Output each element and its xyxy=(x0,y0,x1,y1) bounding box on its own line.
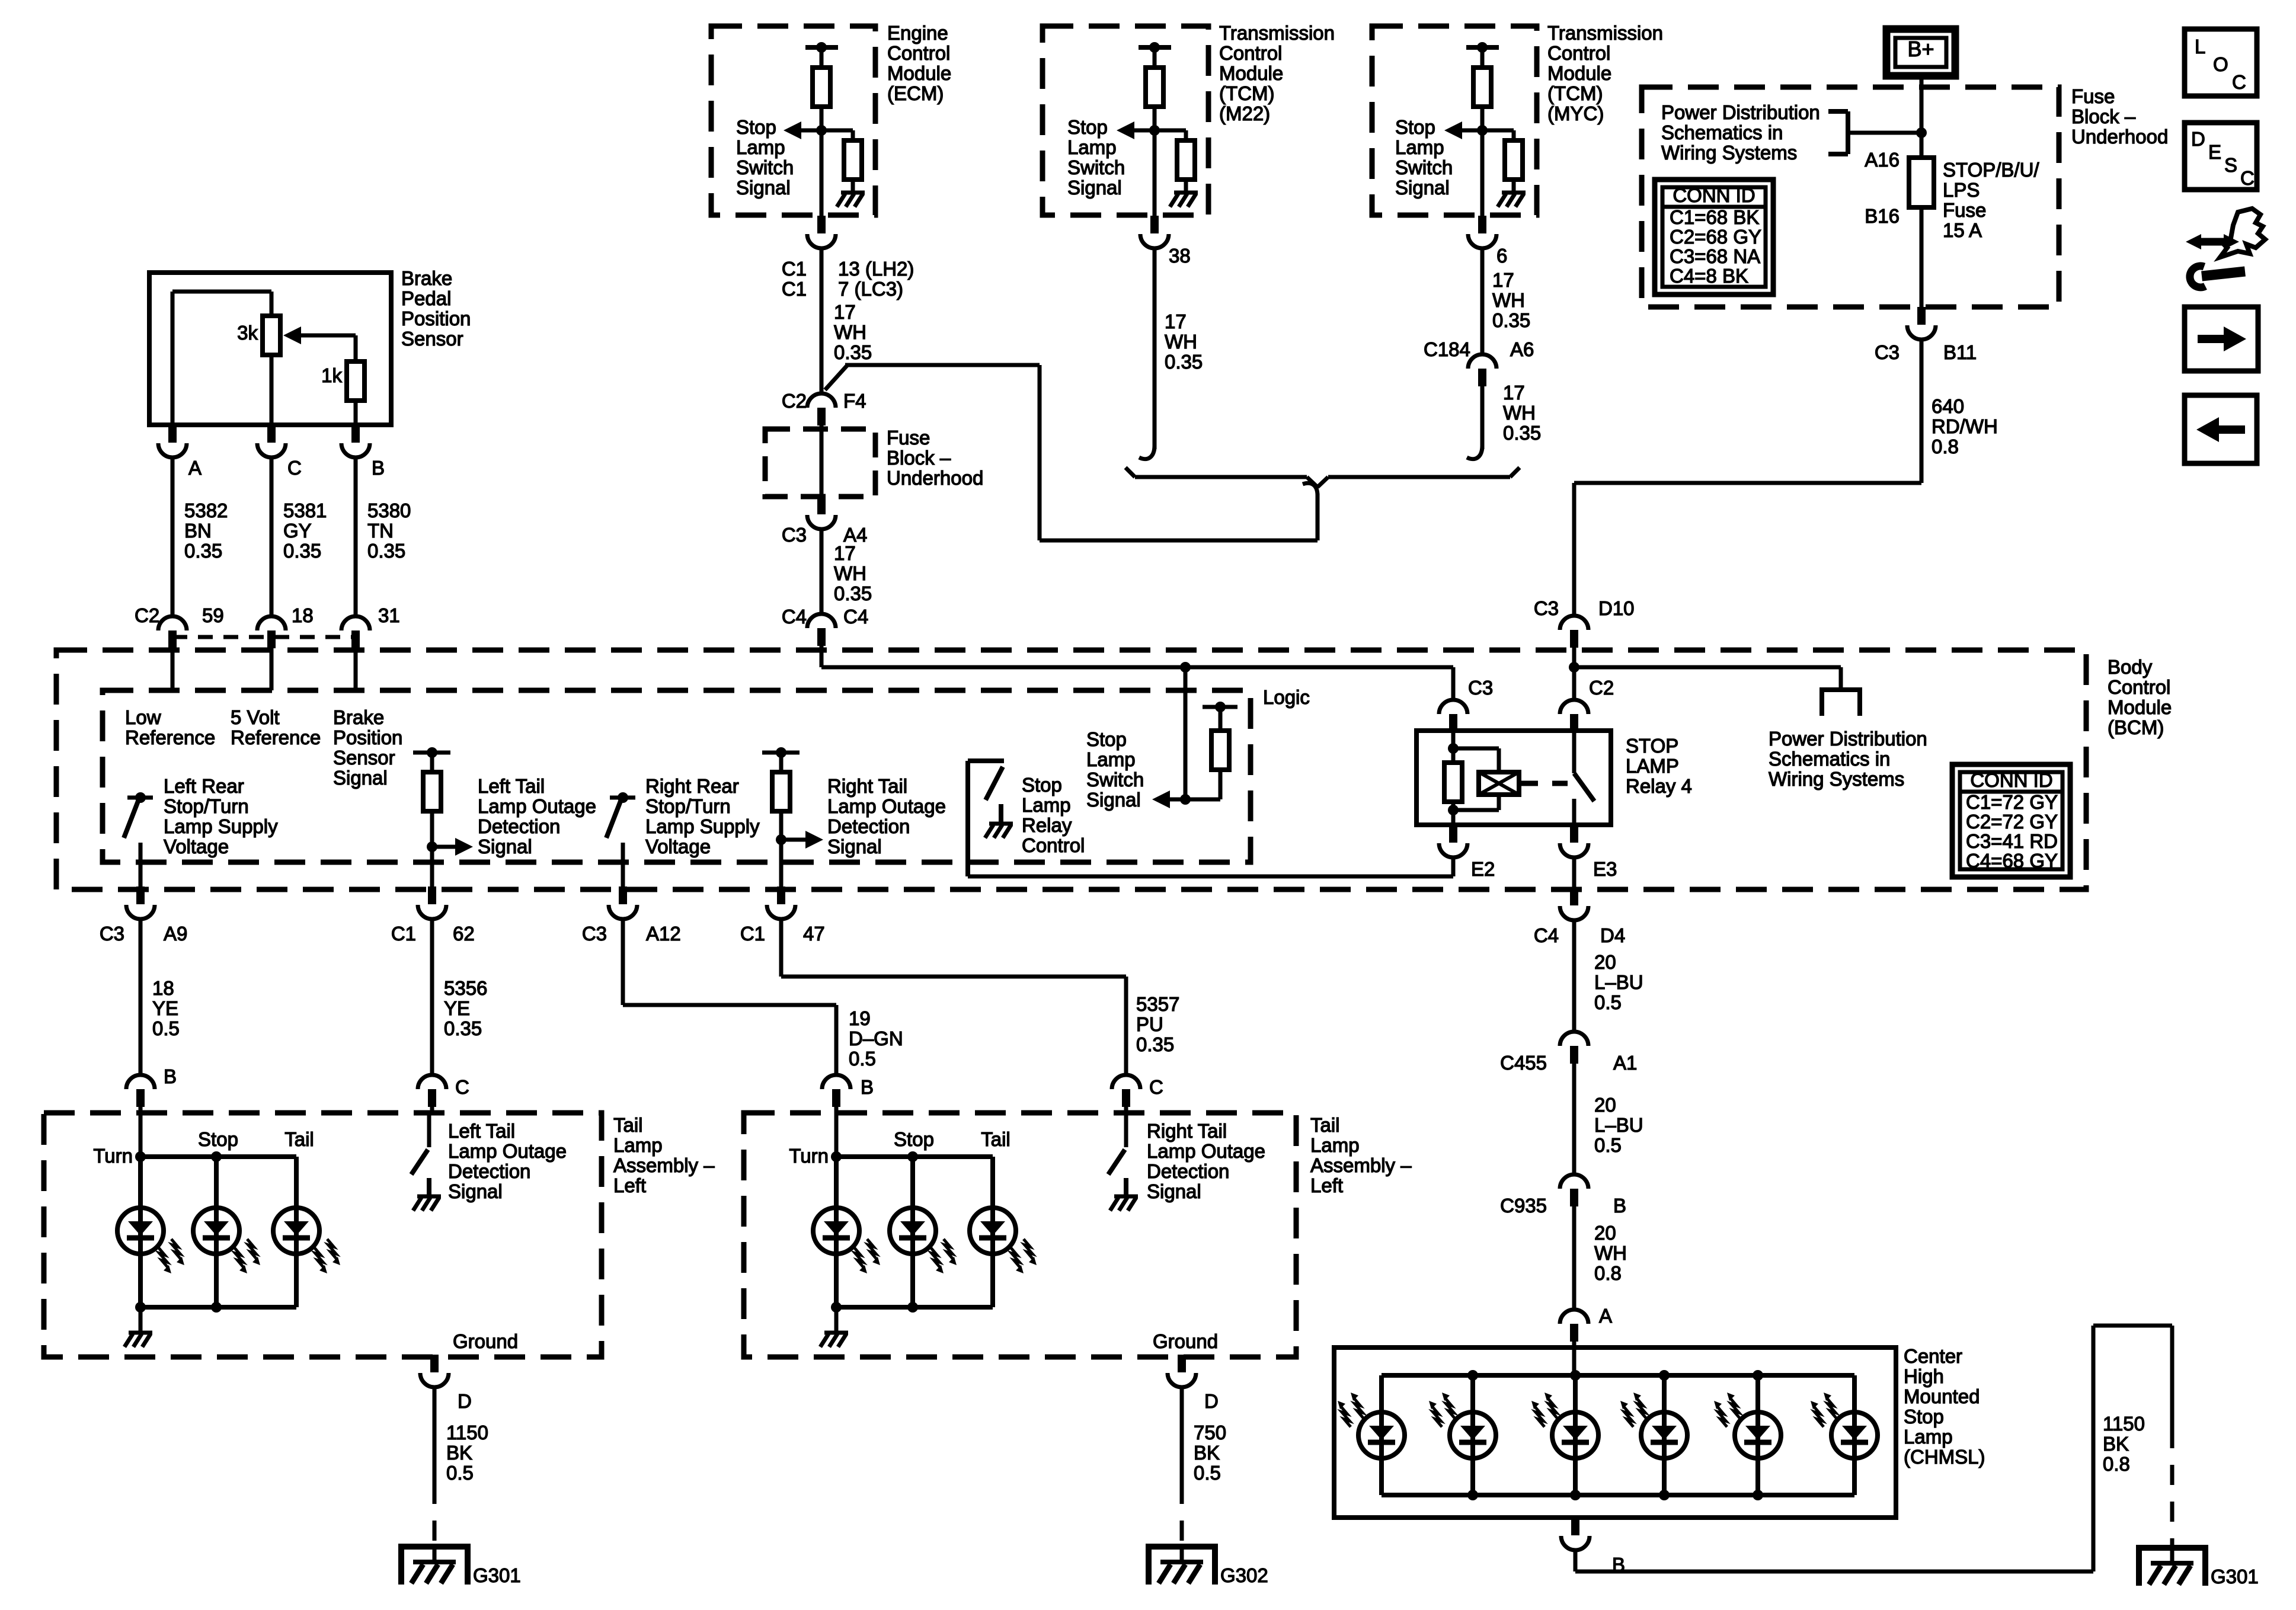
svg-text:E3: E3 xyxy=(1593,858,1617,880)
svg-text:L–BU: L–BU xyxy=(1594,1114,1643,1136)
svg-text:WH: WH xyxy=(834,321,866,343)
svg-text:B: B xyxy=(372,457,385,479)
wire 1k to pin B xyxy=(354,401,358,425)
CHMSL LED 6 xyxy=(1852,1375,1857,1495)
svg-text:B: B xyxy=(861,1076,874,1098)
svg-text:C2: C2 xyxy=(782,390,807,412)
svg-text:Relay 4: Relay 4 xyxy=(1626,775,1692,797)
svg-text:Left Tail: Left Tail xyxy=(478,775,545,797)
connector pin C left tail outage xyxy=(418,1075,446,1089)
right tail outage switch to ground xyxy=(1124,1113,1128,1147)
svg-text:0.5: 0.5 xyxy=(1594,1134,1622,1156)
svg-text:Stop/Turn: Stop/Turn xyxy=(645,795,731,817)
svg-text:Stop: Stop xyxy=(1395,116,1435,138)
svg-text:20: 20 xyxy=(1594,1222,1616,1244)
connector pin B right tail xyxy=(822,1075,850,1089)
svg-text:E: E xyxy=(2208,141,2221,163)
svg-text:Left Tail: Left Tail xyxy=(448,1120,515,1142)
svg-text:0.35: 0.35 xyxy=(444,1017,482,1039)
right tail lamp LED xyxy=(990,1157,995,1307)
wire left rear supply xyxy=(139,843,143,888)
svg-text:62: 62 xyxy=(453,923,475,945)
svg-text:Logic: Logic xyxy=(1263,686,1310,708)
fuse block underhood box xyxy=(1642,87,2059,307)
connector C455 pin A1 xyxy=(1560,1032,1588,1046)
svg-text:A6: A6 xyxy=(1510,338,1534,360)
svg-text:B11: B11 xyxy=(1943,341,1977,363)
svg-text:B: B xyxy=(164,1065,177,1087)
svg-text:0.5: 0.5 xyxy=(1194,1462,1221,1484)
svg-text:17: 17 xyxy=(834,301,856,323)
svg-text:Left Rear: Left Rear xyxy=(164,775,244,797)
svg-text:STOP/B/U/: STOP/B/U/ xyxy=(1943,159,2039,181)
svg-text:Assembly –: Assembly – xyxy=(613,1154,715,1176)
svg-text:Stop: Stop xyxy=(894,1128,934,1150)
svg-text:0.8: 0.8 xyxy=(1932,436,1959,457)
svg-text:0.35: 0.35 xyxy=(834,341,872,363)
svg-text:Transmission: Transmission xyxy=(1219,22,1335,44)
svg-text:(BCM): (BCM) xyxy=(2108,716,2164,738)
svg-text:Detection: Detection xyxy=(1147,1160,1229,1182)
svg-text:1150: 1150 xyxy=(2103,1413,2145,1435)
svg-text:WH: WH xyxy=(1594,1242,1627,1264)
wire fuse output xyxy=(1920,207,1924,309)
svg-text:S: S xyxy=(2224,154,2237,176)
svg-text:C3: C3 xyxy=(100,923,124,945)
svg-text:3k: 3k xyxy=(237,322,258,344)
svg-text:D: D xyxy=(458,1390,472,1412)
svg-text:Signal: Signal xyxy=(1147,1180,1201,1202)
svg-text:CONN ID: CONN ID xyxy=(1970,769,2052,791)
connector C1 pin 47 xyxy=(777,886,785,904)
svg-text:Module: Module xyxy=(1219,62,1283,84)
svg-text:Right Tail: Right Tail xyxy=(827,775,907,797)
connector pin B xyxy=(351,425,360,443)
logic pull-up resistor xyxy=(1203,705,1237,709)
svg-text:Detection: Detection xyxy=(827,815,910,837)
BCM power distribution bracket symbol xyxy=(1839,667,1843,690)
svg-text:(CHMSL): (CHMSL) xyxy=(1904,1446,1985,1468)
wire 20 L-BU 0.5 upper xyxy=(1572,919,1576,1032)
wire to power distribution bracket xyxy=(1848,131,1921,135)
M22 wire end hook at bus xyxy=(1139,446,1155,459)
svg-text:C935: C935 xyxy=(1500,1195,1547,1217)
svg-text:Detection: Detection xyxy=(448,1160,530,1182)
svg-text:(M22): (M22) xyxy=(1219,103,1270,124)
svg-text:Lamp Supply: Lamp Supply xyxy=(164,815,278,837)
svg-text:18: 18 xyxy=(292,604,314,626)
wire 20 L-BU 0.5 lower xyxy=(1572,1062,1576,1174)
svg-text:C2: C2 xyxy=(1589,677,1614,699)
wire A12 to right tail pin B xyxy=(621,918,625,1005)
junction dot B+ feed xyxy=(1916,127,1927,138)
fuse block underhood inline box xyxy=(765,429,875,497)
svg-text:17: 17 xyxy=(1165,311,1187,332)
bus to power distribution bracket xyxy=(1574,665,1841,670)
svg-text:Module: Module xyxy=(887,62,951,84)
tail lamp assembly left box 2 xyxy=(744,1113,1296,1357)
svg-text:C4: C4 xyxy=(782,606,807,628)
svg-text:GY: GY xyxy=(283,520,312,542)
svg-text:Body: Body xyxy=(2108,656,2153,678)
svg-text:1k: 1k xyxy=(321,364,342,386)
svg-text:Signal: Signal xyxy=(1067,177,1122,199)
CHMSL feed wire xyxy=(1572,1347,1576,1375)
svg-text:G301: G301 xyxy=(473,1564,521,1586)
svg-text:PU: PU xyxy=(1136,1013,1163,1035)
svg-text:Right Tail: Right Tail xyxy=(1147,1120,1227,1142)
svg-text:Signal: Signal xyxy=(1395,177,1450,199)
svg-text:Underhood: Underhood xyxy=(887,467,983,489)
svg-text:19: 19 xyxy=(849,1007,871,1029)
wire 3k to pin C xyxy=(270,355,274,425)
wire 17 WH 0.35 upper from TCM MYC xyxy=(1480,247,1485,354)
relay resistor xyxy=(1451,731,1456,763)
svg-text:Ground: Ground xyxy=(453,1330,518,1352)
engine control module (ECM) box xyxy=(711,26,875,215)
svg-text:Lamp: Lamp xyxy=(1904,1426,1953,1448)
right rear stop/turn lamp supply switch xyxy=(610,796,635,800)
connector C3 pin A4 xyxy=(817,497,826,514)
svg-text:STOP: STOP xyxy=(1626,735,1678,757)
wire 17 WH 0.35 from TCM M22 xyxy=(1153,247,1157,449)
svg-text:38: 38 xyxy=(1169,245,1191,267)
svg-text:C3: C3 xyxy=(1875,341,1900,363)
relay switch xyxy=(1572,731,1576,773)
svg-text:Reference: Reference xyxy=(231,726,321,748)
svg-text:Ground: Ground xyxy=(1153,1330,1218,1352)
connector pin C xyxy=(267,425,276,443)
svg-text:D4: D4 xyxy=(1600,924,1625,946)
svg-text:0.35: 0.35 xyxy=(283,540,321,562)
svg-text:Sensor: Sensor xyxy=(401,328,463,350)
wire A into BCM xyxy=(171,648,175,690)
logic inner dashed box xyxy=(103,690,1251,862)
wire 1150 BK 0.5 xyxy=(433,1387,437,1484)
svg-text:Lamp: Lamp xyxy=(1086,748,1136,770)
connector C3 pin A12 xyxy=(619,886,627,904)
left tail outage junction and arrow xyxy=(427,841,437,852)
svg-text:(TCM): (TCM) xyxy=(1547,82,1603,104)
svg-text:Signal: Signal xyxy=(827,836,882,857)
svg-text:C3: C3 xyxy=(1468,677,1493,699)
svg-text:Position: Position xyxy=(333,726,402,748)
CHMSL LED 2 xyxy=(1470,1375,1475,1495)
connector pin D left ground xyxy=(430,1355,439,1372)
svg-text:17: 17 xyxy=(1503,382,1525,404)
body control module (BCM) box xyxy=(56,650,2086,889)
svg-text:C2=68 GY: C2=68 GY xyxy=(1670,226,1761,248)
ECM pull-up resistor and stop lamp switch signal input xyxy=(805,45,838,50)
svg-text:Switch: Switch xyxy=(1086,769,1144,790)
svg-text:Engine: Engine xyxy=(887,22,948,44)
wire 5382 BN xyxy=(171,457,175,616)
right tail outage junction and arrow xyxy=(776,834,786,845)
CONN ID table fuse block xyxy=(1655,180,1773,295)
left tail lamp LED xyxy=(294,1157,299,1307)
svg-text:Lamp: Lamp xyxy=(613,1134,663,1156)
svg-text:Control: Control xyxy=(887,42,950,64)
svg-text:C184: C184 xyxy=(1424,338,1470,360)
svg-text:LPS: LPS xyxy=(1943,179,1980,201)
svg-text:L: L xyxy=(2195,36,2205,57)
svg-text:Turn: Turn xyxy=(93,1145,133,1167)
svg-text:13 (LH2): 13 (LH2) xyxy=(838,258,914,280)
svg-text:Brake: Brake xyxy=(333,706,384,728)
wire relay control to E2 xyxy=(968,875,1453,879)
connector pin D right ground xyxy=(1178,1355,1186,1372)
svg-text:Control: Control xyxy=(1219,42,1282,64)
svg-text:5382: 5382 xyxy=(184,500,228,521)
svg-text:Mounted: Mounted xyxy=(1904,1385,1980,1407)
wire 17 WH 0.35 from ECM xyxy=(820,247,824,393)
tail lamp assembly left box 1 xyxy=(44,1113,602,1357)
svg-text:Signal: Signal xyxy=(1086,789,1141,811)
TCM M22 pull-up resistor and stop lamp switch signal input xyxy=(1139,45,1171,50)
svg-text:Switch: Switch xyxy=(1395,156,1453,178)
right stop lamp LED xyxy=(910,1157,915,1307)
svg-text:TN: TN xyxy=(367,520,394,542)
svg-text:0.5: 0.5 xyxy=(446,1462,474,1484)
svg-text:5381: 5381 xyxy=(283,500,327,521)
DESC legend box xyxy=(2185,123,2257,190)
svg-text:640: 640 xyxy=(1932,395,1964,417)
svg-text:Power Distribution: Power Distribution xyxy=(1769,728,1927,750)
svg-text:C2=72 GY: C2=72 GY xyxy=(1966,811,2058,833)
svg-text:Schematics in: Schematics in xyxy=(1769,748,1890,770)
LOC legend box xyxy=(2185,29,2257,96)
svg-text:750: 750 xyxy=(1194,1422,1226,1443)
svg-text:(MYC): (MYC) xyxy=(1547,103,1604,124)
svg-text:Signal: Signal xyxy=(333,767,388,789)
svg-text:B: B xyxy=(1613,1195,1626,1217)
svg-text:47: 47 xyxy=(803,923,825,945)
svg-text:A9: A9 xyxy=(164,923,187,945)
svg-text:Lamp: Lamp xyxy=(1067,136,1117,158)
svg-text:Lamp Outage: Lamp Outage xyxy=(1147,1140,1265,1162)
svg-text:D10: D10 xyxy=(1598,597,1635,619)
svg-text:C455: C455 xyxy=(1500,1052,1547,1074)
connector E3 xyxy=(1570,825,1578,843)
relay coil xyxy=(1453,747,1499,751)
svg-text:Power Distribution: Power Distribution xyxy=(1661,101,1820,123)
svg-text:C3=68 NA: C3=68 NA xyxy=(1670,245,1760,267)
wire B into BCM xyxy=(354,648,358,690)
svg-text:C1: C1 xyxy=(782,258,807,280)
CONN ID table BCM xyxy=(1952,764,2070,877)
svg-text:Pedal: Pedal xyxy=(401,287,451,309)
svg-text:C3: C3 xyxy=(1534,597,1559,619)
svg-text:Signal: Signal xyxy=(448,1180,503,1202)
svg-text:18: 18 xyxy=(152,977,174,999)
svg-text:Fuse: Fuse xyxy=(887,427,930,449)
wire 47 to right tail outage pin C xyxy=(779,918,784,977)
left tail lamp outage detection resistor xyxy=(413,751,450,755)
svg-text:Lamp Outage: Lamp Outage xyxy=(478,795,596,817)
svg-text:0.35: 0.35 xyxy=(1136,1033,1174,1055)
svg-text:Reference: Reference xyxy=(125,726,215,748)
svg-text:BK: BK xyxy=(1194,1442,1220,1464)
svg-text:BN: BN xyxy=(184,520,212,542)
svg-text:(TCM): (TCM) xyxy=(1219,82,1274,104)
svg-text:(ECM): (ECM) xyxy=(887,82,944,104)
svg-text:Control: Control xyxy=(2108,676,2170,698)
resistor 1k xyxy=(354,335,358,361)
svg-text:0.8: 0.8 xyxy=(1594,1262,1622,1284)
svg-text:Schematics in: Schematics in xyxy=(1661,121,1783,143)
wrench icon xyxy=(2190,266,2205,287)
svg-text:5357: 5357 xyxy=(1136,993,1179,1015)
svg-text:E2: E2 xyxy=(1471,858,1495,880)
svg-text:BK: BK xyxy=(446,1442,472,1464)
wire through fuse block xyxy=(820,424,824,498)
right tail lamp internal ground xyxy=(834,1307,839,1333)
connector E2 xyxy=(1449,825,1457,843)
wire C into BCM xyxy=(270,648,274,690)
wire ECM signal into BCM to relay bus xyxy=(820,645,824,667)
left tail lamp turn/stop/tail bus xyxy=(139,1113,143,1157)
back arrow box xyxy=(2185,395,2257,463)
svg-text:Sensor: Sensor xyxy=(333,747,395,769)
stop lamp switch signal tap xyxy=(1180,662,1191,673)
wire D10 to bus junction xyxy=(1560,616,1588,630)
svg-text:C3=41 RD: C3=41 RD xyxy=(1966,830,2058,852)
relay coil-switch linkage xyxy=(1519,781,1568,786)
svg-text:A: A xyxy=(188,457,202,479)
svg-text:D: D xyxy=(2191,128,2205,150)
svg-text:C: C xyxy=(455,1076,469,1098)
svg-text:Center: Center xyxy=(1904,1345,1962,1367)
svg-text:CONN ID: CONN ID xyxy=(1673,184,1755,206)
left tail outage switch to ground xyxy=(427,1113,431,1147)
svg-text:Wiring Systems: Wiring Systems xyxy=(1661,142,1797,164)
svg-text:Brake: Brake xyxy=(401,267,452,289)
svg-text:O: O xyxy=(2213,53,2228,75)
svg-text:Stop: Stop xyxy=(1022,774,1062,796)
svg-text:RD/WH: RD/WH xyxy=(1932,415,1998,437)
svg-text:WH: WH xyxy=(1165,331,1197,353)
svg-text:A16: A16 xyxy=(1865,149,1900,171)
svg-text:WH: WH xyxy=(1503,402,1536,424)
svg-text:A1: A1 xyxy=(1613,1052,1637,1074)
svg-text:G301: G301 xyxy=(2211,1566,2259,1587)
CHMSL LED 1 xyxy=(1379,1375,1384,1495)
svg-text:G302: G302 xyxy=(1220,1564,1268,1586)
ground G301 right xyxy=(2139,1548,2205,1586)
svg-text:0.5: 0.5 xyxy=(849,1048,876,1070)
svg-text:Switch: Switch xyxy=(736,156,794,178)
wire 17 WH 0.35 to BCM xyxy=(820,528,824,614)
svg-text:C1=68 BK: C1=68 BK xyxy=(1670,206,1759,228)
svg-text:Switch: Switch xyxy=(1067,156,1125,178)
svg-text:Tail: Tail xyxy=(981,1128,1011,1150)
svg-text:Lamp: Lamp xyxy=(1395,136,1444,158)
svg-text:Signal: Signal xyxy=(478,836,532,857)
svg-text:0.35: 0.35 xyxy=(1492,309,1530,331)
svg-text:20: 20 xyxy=(1594,1094,1616,1116)
svg-text:1150: 1150 xyxy=(446,1422,488,1443)
svg-text:0.35: 0.35 xyxy=(1165,351,1203,373)
svg-text:15 A: 15 A xyxy=(1943,219,1982,241)
svg-text:Underhood: Underhood xyxy=(2071,126,2168,148)
connector C935 pin B xyxy=(1560,1174,1588,1189)
connector C3 pin A9 xyxy=(136,886,145,904)
connector C3 pin B11 xyxy=(1917,307,1926,325)
svg-text:Stop: Stop xyxy=(736,116,776,138)
svg-text:0.5: 0.5 xyxy=(152,1017,180,1039)
stop lamp relay control driver switch xyxy=(965,761,970,876)
CHMSL internal bus bottom xyxy=(1382,1493,1854,1497)
svg-text:Tail: Tail xyxy=(613,1114,643,1136)
svg-text:Fuse: Fuse xyxy=(1943,199,1986,221)
svg-text:D–GN: D–GN xyxy=(849,1028,903,1049)
svg-text:Assembly –: Assembly – xyxy=(1310,1154,1412,1176)
svg-text:Left: Left xyxy=(1310,1174,1343,1196)
connector pin C right tail outage xyxy=(1112,1075,1140,1089)
svg-text:5356: 5356 xyxy=(444,977,487,999)
svg-text:C4=8 BK: C4=8 BK xyxy=(1670,265,1748,287)
svg-text:Turn: Turn xyxy=(789,1145,829,1167)
wire bus joining TCM stop lamp signals xyxy=(1135,475,1307,479)
svg-text:Stop: Stop xyxy=(1067,116,1108,138)
transmission control module (TCM MYC) box xyxy=(1372,26,1537,215)
svg-text:Wiring Systems: Wiring Systems xyxy=(1769,768,1904,790)
right turn lamp LED xyxy=(834,1157,839,1307)
svg-text:17: 17 xyxy=(834,542,856,564)
svg-text:Voltage: Voltage xyxy=(645,836,711,857)
svg-text:B16: B16 xyxy=(1865,205,1900,227)
svg-text:C1: C1 xyxy=(740,923,765,945)
left turn lamp LED xyxy=(138,1157,143,1307)
svg-text:C1: C1 xyxy=(782,278,807,300)
svg-text:Stop: Stop xyxy=(1086,728,1127,750)
wire 640 RD/WH 0.8 xyxy=(1920,338,1924,483)
svg-text:0.8: 0.8 xyxy=(2103,1453,2130,1475)
wire sensor internal low-ref xyxy=(171,292,175,425)
svg-text:Lamp Supply: Lamp Supply xyxy=(645,815,760,837)
svg-text:Control: Control xyxy=(1547,42,1610,64)
svg-text:High: High xyxy=(1904,1365,1944,1387)
connector C2 harness dashed line xyxy=(172,635,356,639)
svg-text:Stop/Turn: Stop/Turn xyxy=(164,795,249,817)
svg-text:LAMP: LAMP xyxy=(1626,755,1679,777)
wire right rear supply xyxy=(621,843,625,888)
svg-text:WH: WH xyxy=(1492,289,1525,311)
svg-text:L–BU: L–BU xyxy=(1594,971,1643,993)
svg-text:C4=68 GY: C4=68 GY xyxy=(1966,850,2058,872)
connector C4 pin D4 xyxy=(1570,888,1578,905)
B+ battery terminal xyxy=(1886,29,1955,76)
svg-text:Relay: Relay xyxy=(1022,814,1072,836)
svg-text:Lamp: Lamp xyxy=(1022,794,1071,816)
CHMSL LED 4 xyxy=(1662,1375,1667,1495)
connector pin 6 xyxy=(1478,216,1486,233)
svg-text:Stop: Stop xyxy=(1904,1406,1944,1427)
svg-text:Stop: Stop xyxy=(198,1128,238,1150)
svg-text:5 Volt: 5 Volt xyxy=(231,706,280,728)
wire 18 YE 0.5 xyxy=(139,918,143,1075)
potentiometer 3k xyxy=(263,316,280,355)
svg-text:Lamp: Lamp xyxy=(736,136,785,158)
svg-text:Voltage: Voltage xyxy=(164,836,229,857)
right tail lamp turn/stop/tail bus xyxy=(834,1113,839,1157)
svg-text:C: C xyxy=(2232,71,2246,93)
svg-text:Low: Low xyxy=(125,706,161,728)
svg-text:C4: C4 xyxy=(1534,924,1559,946)
svg-text:F4: F4 xyxy=(843,390,866,412)
svg-text:Right Rear: Right Rear xyxy=(645,775,739,797)
svg-text:Module: Module xyxy=(1547,62,1611,84)
